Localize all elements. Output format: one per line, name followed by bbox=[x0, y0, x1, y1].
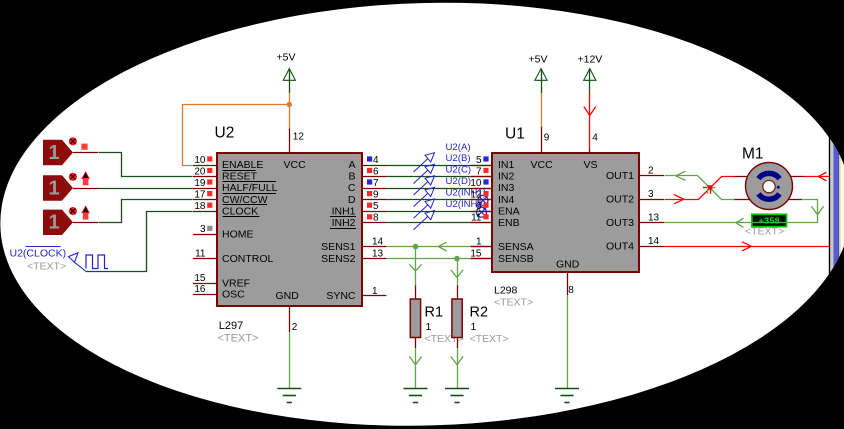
motor M1 right pin stubs bbox=[788, 177, 804, 200]
wire junction to U2 ENABLE (orange net) bbox=[183, 105, 290, 166]
svg-text:<TEXT>: <TEXT> bbox=[470, 333, 509, 345]
U2 pin 2 GND bbox=[276, 290, 300, 333]
power symbol +5V (U1 VCC net) bbox=[529, 54, 548, 94]
U1 pin 12 IN4 bbox=[470, 189, 514, 205]
op-chip U2 L297 body bbox=[217, 153, 362, 306]
U2 pin 7 C bbox=[348, 178, 386, 194]
svg-text:SENS2: SENS2 bbox=[321, 253, 356, 265]
U2 pin 16 OSC bbox=[193, 284, 245, 300]
svg-text:19: 19 bbox=[194, 178, 206, 189]
svg-text:6: 6 bbox=[373, 166, 379, 177]
svg-text:INH1: INH1 bbox=[332, 205, 356, 217]
U2 pin 8 INH2 bbox=[330, 213, 386, 229]
wire U2 D to U1 (net U2(D)) bbox=[386, 199, 492, 201]
svg-text:U2(A): U2(A) bbox=[446, 142, 471, 153]
svg-text:B: B bbox=[348, 171, 355, 183]
U1 pin 15 SENSB bbox=[470, 248, 533, 264]
svg-text:U2: U2 bbox=[215, 125, 235, 142]
svg-text:HOME: HOME bbox=[222, 229, 254, 241]
U1 pin 4 VS bbox=[584, 133, 599, 172]
svg-text:R2: R2 bbox=[470, 305, 489, 321]
U2 pin 5 INH1 bbox=[330, 201, 386, 217]
svg-text:13: 13 bbox=[372, 248, 384, 259]
svg-text:R1: R1 bbox=[425, 305, 444, 321]
svg-text:11: 11 bbox=[471, 213, 482, 224]
svg-text:CONTROL: CONTROL bbox=[222, 253, 273, 265]
svg-text:SYNC: SYNC bbox=[326, 290, 356, 302]
svg-text:VCC: VCC bbox=[531, 159, 554, 171]
svg-text:6: 6 bbox=[476, 201, 482, 212]
current arrow on OUT2 wire bbox=[674, 195, 684, 200]
net label arrow U2(INH1) bbox=[414, 199, 435, 218]
U1 pin 13 OUT3 bbox=[606, 212, 664, 229]
svg-text:+5V: +5V bbox=[529, 54, 548, 66]
current arrow on OUT3 wire bbox=[736, 218, 744, 223]
wire motor right to bar (red) bbox=[804, 176, 830, 178]
svg-text:U1: U1 bbox=[505, 126, 525, 143]
current arrow on motor feedback wire bbox=[811, 206, 817, 215]
wire U1 OUT2 to motor (red, crosses over) bbox=[665, 177, 735, 200]
terminal U2(CLOCK) arrow symbol bbox=[69, 253, 86, 271]
svg-text:7: 7 bbox=[373, 178, 379, 189]
U2 pin 19 HALF/FULL bbox=[193, 178, 278, 194]
wire U1 OUT1 to motor (green, crosses over) bbox=[665, 176, 735, 200]
current arrow on +12V wire bbox=[584, 107, 590, 116]
U2 pin 13 SENS2 bbox=[321, 248, 386, 264]
wire U2 SENS1 to U1 SENSA bbox=[386, 246, 492, 248]
U1 pin 5 IN1 bbox=[471, 155, 515, 171]
svg-text:ENB: ENB bbox=[498, 217, 520, 229]
wire +5V to U1 VCC (orange) bbox=[541, 93, 543, 127]
net label arrow U2(INH2) bbox=[414, 211, 435, 230]
svg-text:IN4: IN4 bbox=[498, 194, 515, 206]
svg-text:OUT4: OUT4 bbox=[606, 241, 634, 253]
circle-cross marker at U1 ENA pin bbox=[477, 207, 487, 217]
svg-text:20: 20 bbox=[194, 166, 206, 177]
ground symbol under U2 bbox=[277, 389, 301, 403]
wire R2 to ground bbox=[457, 338, 459, 388]
svg-text:CLOCK: CLOCK bbox=[222, 205, 258, 217]
svg-text:IN3: IN3 bbox=[498, 182, 515, 194]
motor M1 shaft hole bbox=[763, 180, 775, 192]
U1 pin 1 SENSA bbox=[471, 236, 534, 252]
svg-text:1: 1 bbox=[426, 321, 432, 333]
clock waveform glyph bbox=[86, 255, 108, 269]
svg-text:OUT1: OUT1 bbox=[606, 170, 634, 182]
svg-text:IN2: IN2 bbox=[498, 171, 515, 183]
wire connector1 to RESET bbox=[73, 153, 193, 177]
svg-text:U2(D): U2(D) bbox=[446, 176, 472, 187]
svg-text:L298: L298 bbox=[494, 285, 518, 297]
svg-text:1: 1 bbox=[471, 321, 477, 333]
current arrow on OUT1 wire bbox=[676, 171, 686, 176]
svg-text:SENS1: SENS1 bbox=[321, 241, 356, 253]
svg-text:IN1: IN1 bbox=[498, 159, 515, 171]
logic state connector 1 (drives RESET) bbox=[43, 137, 88, 165]
U1 pin 3 OUT2 bbox=[606, 189, 664, 206]
svg-text:GND: GND bbox=[276, 290, 300, 302]
svg-text:8: 8 bbox=[373, 213, 379, 224]
svg-text:<TEXT>: <TEXT> bbox=[494, 297, 533, 309]
motor M1 left pin stubs bbox=[734, 177, 750, 200]
U2 pin 1 SYNC bbox=[326, 286, 386, 302]
svg-text:VCC: VCC bbox=[284, 159, 307, 171]
svg-text:3: 3 bbox=[648, 189, 654, 200]
svg-text:1: 1 bbox=[372, 286, 378, 297]
svg-text:8: 8 bbox=[568, 285, 574, 296]
svg-text:U2(CLOCK): U2(CLOCK) bbox=[10, 248, 67, 260]
svg-text:+12V: +12V bbox=[578, 54, 603, 66]
svg-text:U2(C): U2(C) bbox=[446, 165, 472, 176]
current arrow on SENS1 wire bbox=[438, 242, 446, 246]
svg-text:VREF: VREF bbox=[222, 277, 250, 289]
svg-text:10: 10 bbox=[470, 178, 482, 189]
motor M1 lower coil arc bbox=[759, 194, 780, 199]
U2 pin 11 CONTROL bbox=[193, 248, 274, 264]
wire U1 OUT4 to bar (red) bbox=[664, 246, 829, 248]
wire junction to U2 VCC pin (orange) bbox=[289, 105, 291, 129]
wire U2 GND to ground bbox=[289, 332, 291, 388]
U1 pin 14 OUT4 bbox=[606, 236, 664, 253]
svg-text:14: 14 bbox=[648, 236, 660, 247]
wire U1 OUT3 to display (green) bbox=[664, 222, 752, 224]
svg-text:ENA: ENA bbox=[498, 205, 520, 217]
svg-text:HALF/FULL: HALF/FULL bbox=[222, 182, 278, 194]
wire junction to R1 bbox=[415, 247, 417, 299]
U2 pin 10 ENABLE bbox=[193, 155, 264, 171]
U1 pin 8 GND bbox=[556, 258, 580, 296]
svg-text:OSC: OSC bbox=[222, 289, 245, 301]
display probe +358 body bbox=[752, 214, 787, 226]
svg-text:C: C bbox=[348, 182, 356, 194]
U2 pin 4 A bbox=[348, 155, 386, 171]
wire junction to R2 bbox=[457, 259, 459, 299]
svg-text:3: 3 bbox=[200, 224, 206, 235]
motor M1 upper coil arc bbox=[759, 173, 780, 178]
svg-text:+5V: +5V bbox=[277, 52, 296, 64]
svg-text:15: 15 bbox=[470, 248, 482, 259]
svg-text:14: 14 bbox=[372, 236, 384, 247]
svg-text:1: 1 bbox=[48, 142, 59, 164]
current arrow to R2 bbox=[451, 270, 457, 278]
U2 pin 12 VCC bbox=[284, 129, 307, 172]
svg-text:GND: GND bbox=[556, 258, 580, 270]
svg-text:10: 10 bbox=[194, 155, 206, 166]
U2 pin 6 B bbox=[348, 166, 386, 182]
svg-text:+358: +358 bbox=[759, 216, 780, 226]
wire U2 C to U1 (net U2(C)) bbox=[386, 188, 492, 190]
svg-text:<TEXT>: <TEXT> bbox=[27, 260, 66, 272]
circle-cross marker at U1 IN4 pin bbox=[478, 195, 488, 205]
current arrow on motor right wire bbox=[819, 172, 827, 176]
U2 pin 17 CW/CCW bbox=[193, 189, 268, 205]
U2 pin 14 SENS1 bbox=[321, 236, 386, 252]
ground symbol under R1 bbox=[404, 389, 428, 403]
power symbol +5V (U2 VCC net) bbox=[277, 52, 296, 94]
junction node SENS1/R1 bbox=[413, 244, 419, 250]
wire connector2 to HALF/FULL bbox=[73, 188, 193, 190]
ground symbol under R2 bbox=[445, 389, 469, 403]
svg-text:12: 12 bbox=[470, 189, 482, 200]
svg-text:2: 2 bbox=[292, 322, 298, 333]
wire U1 GND to ground bbox=[567, 295, 569, 388]
svg-text:11: 11 bbox=[195, 248, 206, 259]
U2 pin 20 RESET bbox=[193, 166, 276, 182]
svg-text:1: 1 bbox=[476, 236, 482, 247]
wire U2 SENS2 to U1 SENSB bbox=[386, 258, 492, 260]
svg-text:D: D bbox=[348, 194, 356, 206]
svg-text:9: 9 bbox=[373, 189, 379, 200]
svg-text:5: 5 bbox=[373, 201, 379, 212]
right edge scrollbar-like bar bbox=[829, 100, 844, 320]
wire U2 B to U1 (net U2(B)) bbox=[386, 176, 492, 178]
wire +12V to U1 VS (red) bbox=[589, 93, 591, 149]
svg-text:1: 1 bbox=[48, 177, 59, 199]
U1 pin 10 IN3 bbox=[470, 178, 514, 194]
svg-text:VS: VS bbox=[584, 159, 598, 171]
wire U2 INH2 to U1 (net U2(INH2)) bbox=[386, 222, 492, 224]
U1 pin 7 IN2 bbox=[471, 166, 515, 182]
svg-text:2: 2 bbox=[648, 165, 654, 176]
svg-text:SENSA: SENSA bbox=[498, 241, 534, 253]
svg-text:A: A bbox=[348, 159, 355, 171]
resistor R2 body bbox=[452, 299, 462, 338]
svg-text:<TEXT>: <TEXT> bbox=[745, 226, 784, 238]
svg-text:U2(B): U2(B) bbox=[446, 153, 471, 164]
current arrow on OUT4 wire bbox=[742, 242, 752, 247]
U1 pin 6 ENA bbox=[471, 201, 520, 217]
svg-text:15: 15 bbox=[194, 273, 206, 284]
wire display to motor lower right (green) bbox=[787, 200, 818, 223]
op-chip U1 L298 body bbox=[492, 153, 639, 272]
svg-text:16: 16 bbox=[194, 284, 206, 295]
svg-text:SENSB: SENSB bbox=[498, 253, 534, 265]
terminal U2(CLOCK) label bbox=[10, 247, 67, 260]
svg-text:9: 9 bbox=[544, 133, 550, 144]
svg-text:OUT2: OUT2 bbox=[606, 193, 634, 205]
current arrow below R2 bbox=[451, 356, 457, 364]
resistor R1 body bbox=[410, 299, 420, 338]
svg-text:13: 13 bbox=[648, 212, 660, 223]
motor M1 body bbox=[746, 163, 793, 210]
logic state connector 2 (drives HALF/FULL) bbox=[43, 171, 90, 201]
U1 pin 2 OUT1 bbox=[606, 165, 664, 182]
svg-text:7: 7 bbox=[476, 166, 482, 177]
U1 pin 11 ENB bbox=[471, 213, 520, 229]
U2 pin 3 HOME bbox=[193, 224, 254, 240]
svg-text:INH2: INH2 bbox=[332, 217, 356, 229]
net label arrow U2(C) bbox=[414, 176, 435, 195]
ground symbol under U1 bbox=[555, 389, 579, 403]
wire connector3 to CW/CCW bbox=[73, 200, 193, 223]
crossing marker arrows bbox=[703, 185, 716, 193]
svg-text:<TEXT>: <TEXT> bbox=[218, 333, 259, 345]
svg-text:ENABLE: ENABLE bbox=[222, 159, 263, 171]
svg-text:18: 18 bbox=[194, 201, 206, 212]
wire R1 to ground bbox=[415, 338, 417, 388]
current arrow to R1 bbox=[409, 264, 415, 270]
logic state connector 3 (drives CW/CCW) bbox=[43, 205, 90, 235]
power symbol +12V (U1 VS net) bbox=[578, 54, 603, 94]
svg-text:12: 12 bbox=[293, 132, 305, 143]
svg-text:4: 4 bbox=[592, 133, 598, 144]
svg-text:L297: L297 bbox=[219, 320, 243, 332]
net label arrow U2(A) bbox=[414, 153, 435, 172]
junction node on +5V net bbox=[287, 102, 292, 107]
net label arrow U2(D) bbox=[414, 187, 435, 206]
svg-text:RESET: RESET bbox=[222, 171, 258, 183]
U2 pin 9 D bbox=[348, 189, 386, 205]
junction node SENS2/R2 bbox=[454, 256, 460, 262]
svg-text:M1: M1 bbox=[742, 146, 764, 163]
svg-text:17: 17 bbox=[194, 189, 206, 200]
wire +5V to junction (orange segment) bbox=[289, 93, 291, 105]
current arrow below R1 bbox=[409, 356, 415, 364]
svg-text:5: 5 bbox=[476, 155, 482, 166]
U1 pin 9 VCC bbox=[531, 127, 554, 171]
U2 pin 15 VREF bbox=[193, 273, 250, 289]
motor M1 index dot bbox=[777, 186, 780, 189]
wire U2 A to U1 (net U2(A)) bbox=[386, 165, 492, 167]
U2 pin 18 CLOCK bbox=[193, 201, 260, 217]
svg-text:4: 4 bbox=[373, 155, 379, 166]
wire clock terminal to U2 CLOCK bbox=[86, 212, 193, 272]
net label arrow U2(B) bbox=[414, 164, 435, 183]
wire U2 INH1 to U1 (net U2(INH1)) bbox=[386, 211, 492, 213]
svg-text:OUT3: OUT3 bbox=[606, 217, 634, 229]
svg-text:1: 1 bbox=[48, 212, 59, 234]
